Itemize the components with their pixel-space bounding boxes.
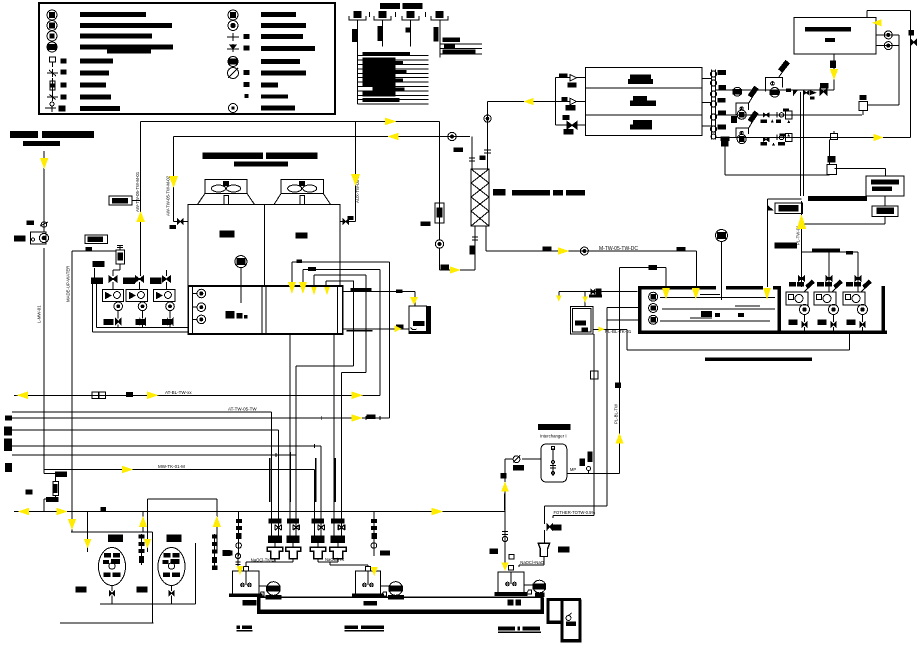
wire box top feed bbox=[867, 11, 911, 138]
wire recirculation drop B bbox=[553, 510, 595, 518]
chemical feeder assembly 4 bbox=[330, 334, 346, 562]
riser unit 1 bbox=[349, 12, 366, 21]
arrow right tank feed bbox=[558, 247, 570, 255]
thick label under tank bbox=[705, 358, 812, 361]
svg-text:AT-BL-TW-xx: AT-BL-TW-xx bbox=[165, 390, 192, 395]
riser text labels bbox=[37, 171, 801, 424]
arrow down buffer inlet 1 bbox=[288, 282, 296, 294]
wire group3 jog bbox=[166, 137, 173, 277]
arrow down branch x72 bbox=[68, 519, 76, 530]
riser tick marks bbox=[370, 12, 426, 17]
pump P-A3 loop with handle bbox=[721, 111, 758, 143]
arrow down interchanger feed lower bbox=[501, 563, 508, 572]
wire pump row2 bbox=[716, 114, 863, 116]
dosing tank TK-2 bbox=[352, 567, 389, 597]
flow valve left of interchanger bbox=[505, 456, 541, 470]
dosing tank TK-1 bbox=[230, 567, 267, 597]
legend symbol inline-filter row7 bbox=[50, 78, 66, 93]
svg-text:MW-TK-01-M: MW-TK-01-M bbox=[158, 464, 185, 469]
brine column between vessels bbox=[139, 534, 145, 565]
chiller area title bars bbox=[203, 153, 318, 167]
chilled water pump group 1 bbox=[92, 276, 124, 328]
arrow right header y510 b bbox=[432, 508, 444, 516]
tank internal label bbox=[701, 311, 744, 317]
air cooled chiller CH-1 body bbox=[188, 205, 264, 286]
wire header y446 bbox=[12, 445, 321, 447]
legend text bars right column bbox=[261, 12, 315, 111]
arrow left HRU feed bbox=[524, 98, 534, 105]
dosing pump DP-2 bbox=[381, 582, 403, 599]
wire bracket L3 bbox=[314, 275, 366, 373]
wire tank to measuring box lower bbox=[343, 325, 417, 332]
wire header y418 bbox=[12, 415, 390, 419]
tower pump set 2 bbox=[814, 275, 842, 332]
level transmitter above tank bbox=[716, 230, 728, 301]
legend symbol valve2 row8 bbox=[47, 93, 66, 101]
wire header y469 bbox=[44, 464, 315, 470]
wire interchanger outlet right bbox=[567, 452, 620, 474]
tank sight glasses bbox=[649, 292, 658, 324]
legend symbol drain-valve row9 bbox=[45, 102, 65, 112]
drawing title bar bbox=[10, 131, 94, 146]
header label C bbox=[508, 600, 521, 606]
label PLBL near tank left bbox=[605, 329, 632, 334]
svg-text:FOTHER-TOTW-0.5%: FOTHER-TOTW-0.5% bbox=[554, 510, 596, 515]
chemical feeder assembly 3 bbox=[310, 446, 326, 562]
auxiliary tank left of TW tank bbox=[570, 306, 592, 334]
wire riser to tank right chamber bbox=[801, 92, 804, 287]
wire header y430 bbox=[12, 429, 278, 431]
wire pump row3 bbox=[716, 137, 911, 139]
arrow right row3 bbox=[874, 134, 884, 141]
arrow down city water bbox=[40, 158, 49, 169]
left edge header labels bbox=[4, 416, 12, 472]
HX labels bbox=[493, 189, 585, 196]
check valve HRU row1 bbox=[560, 74, 577, 87]
wire main header y395 bbox=[14, 394, 380, 396]
svg-text:M-TW-05-TW-DC: M-TW-05-TW-DC bbox=[599, 246, 638, 252]
air cooled chiller CH-2 body bbox=[264, 205, 340, 286]
legend box frame bbox=[39, 3, 335, 114]
chemical feeder assembly 2 bbox=[286, 334, 301, 562]
pressure gauge PI bbox=[859, 95, 899, 115]
legend symbol post row5 bbox=[50, 57, 67, 67]
arrow down tank1 inlet bbox=[237, 566, 244, 575]
chiller CH-2 fan housing bbox=[274, 179, 331, 204]
interchanger label bbox=[538, 424, 571, 438]
svg-text:NaOCl-TK-D: NaOCl-TK-D bbox=[251, 558, 275, 563]
wire HX top riser bbox=[480, 102, 491, 170]
arrow down buffer inlet 3 bbox=[311, 287, 317, 295]
arrow right measuring box lower bbox=[395, 325, 402, 332]
arrow right tank drain small bbox=[599, 327, 605, 333]
pump P-A1 bbox=[733, 87, 742, 96]
softener vessel V-1 bbox=[99, 535, 126, 604]
svg-text:AW-TW-05-TW-M-01: AW-TW-05-TW-M-01 bbox=[135, 171, 140, 212]
wire pump suction frame bbox=[93, 262, 189, 332]
svg-text:NaOCl+NaO: NaOCl+NaO bbox=[520, 560, 544, 565]
legend symbol circle-square row1 bbox=[47, 10, 57, 20]
arrow left into expansion box bbox=[872, 19, 882, 26]
feeder vertical labels bbox=[269, 452, 336, 502]
strainer on city water bbox=[26, 472, 67, 501]
wire chiller CH-2 riser bbox=[355, 121, 357, 221]
wire pump row1 bbox=[716, 89, 835, 91]
dosing pump DP-1 bbox=[259, 582, 281, 599]
bottom equipment label A bbox=[236, 625, 252, 631]
chemical drain header thick bbox=[257, 597, 544, 614]
arrow up vessel riser x143 bbox=[139, 516, 147, 527]
header labels bbox=[243, 600, 378, 605]
gate valve HRU row3 bbox=[563, 116, 577, 135]
svg-text:MADE-UP-WATER: MADE-UP-WATER bbox=[66, 266, 71, 302]
wire bracket L2 bbox=[303, 270, 380, 396]
softener vessel V-2 bbox=[158, 535, 185, 604]
arrow down tank inlet 3 bbox=[763, 288, 771, 300]
arrow down vessel inlet 1 bbox=[84, 539, 92, 549]
svg-text:PL-BL-TK-01: PL-BL-TK-01 bbox=[605, 329, 632, 334]
tower pump set 3 bbox=[843, 275, 871, 332]
svg-text:MP: MP bbox=[570, 467, 576, 472]
misc component right of vessels bbox=[235, 552, 240, 569]
tank water level lines bbox=[660, 295, 775, 322]
arrow right header y469 bbox=[122, 466, 133, 474]
heat recovery unit stack HRU-1..3 bbox=[585, 67, 702, 135]
wire tank middle inlet bbox=[607, 308, 638, 320]
wire makeup column tank2 bbox=[371, 512, 390, 557]
label box small right bbox=[802, 196, 899, 224]
brine column right bbox=[212, 534, 230, 570]
drain valve right edge bbox=[909, 30, 917, 45]
tower water tank thick shell bbox=[638, 286, 887, 334]
legend symbol slashed-circle right row6 bbox=[228, 68, 250, 79]
bracket labels bbox=[296, 260, 402, 293]
wire header y412 bbox=[12, 407, 272, 413]
sump pit thick outline bbox=[546, 600, 581, 641]
plate heat exchanger HX-1 bbox=[471, 169, 489, 226]
air gap funnel bbox=[519, 530, 569, 567]
svg-text:L-MW-01: L-MW-01 bbox=[37, 305, 42, 323]
water meter station bbox=[15, 221, 49, 244]
arrow down aux line end bbox=[556, 296, 562, 302]
chiller CH-1 fan housing bbox=[198, 179, 255, 204]
legend symbol safety-valve right row4 bbox=[227, 44, 249, 52]
wire box bottom drop bbox=[831, 54, 836, 90]
legend symbol circle-dot right row2 bbox=[228, 21, 238, 31]
wire branch x72 down bbox=[60, 532, 153, 623]
buffer tank mid left bbox=[188, 286, 343, 334]
legend symbol valve right row3 bbox=[227, 33, 249, 41]
pump P-A2 loop with handle bbox=[731, 86, 758, 122]
dosing filter component bbox=[96, 245, 125, 276]
buffer tank sight glasses bbox=[193, 289, 206, 324]
arrow up interchanger feed bbox=[501, 482, 509, 492]
arrow up vessel riser x217 bbox=[213, 516, 221, 527]
legend symbol filled-circle row4 bbox=[47, 42, 57, 52]
arrow up pump riser bbox=[136, 211, 145, 222]
junction row3 bbox=[831, 131, 838, 140]
arrow down transfer box bbox=[410, 297, 418, 305]
arrow right header y418 bbox=[352, 414, 364, 422]
legend symbol square right row7 bbox=[244, 83, 249, 87]
riser stem 2 bbox=[378, 20, 382, 46]
label box left B bbox=[85, 235, 108, 251]
arrow down vessel inlet 2 bbox=[144, 539, 152, 549]
riser unit labels top bbox=[380, 3, 423, 9]
bottom equipment label D bbox=[498, 626, 541, 633]
arrow right condenser supply bbox=[385, 118, 397, 126]
arrow down tank2 inlet bbox=[371, 567, 378, 576]
PT instrument pair on header bbox=[92, 390, 193, 399]
legend symbol circle-tinydot right row9 bbox=[229, 104, 238, 113]
wire condenser supply header bbox=[141, 121, 440, 276]
chilled water pump group 2 bbox=[124, 276, 148, 328]
wire row3 branch down bbox=[768, 199, 802, 287]
arrow down buffer inlet 2 bbox=[299, 282, 307, 294]
wire makeup water line bbox=[72, 251, 116, 532]
svg-text:AW-TW-05-TW-M-02: AW-TW-05-TW-M-02 bbox=[166, 175, 171, 216]
expansion tank box top right bbox=[794, 18, 876, 55]
legend symbol circle-dot row2 bbox=[47, 21, 57, 31]
riser unit 3 bbox=[402, 12, 419, 21]
wire bottom distribution y510 bbox=[14, 507, 505, 511]
svg-text:Interchanger I: Interchanger I bbox=[540, 433, 567, 438]
arrow left condenser return bbox=[388, 133, 399, 141]
valve marks row1 bbox=[786, 89, 815, 100]
interchanger vessel bbox=[541, 444, 567, 482]
valve chiller CH-1 inlet bbox=[170, 219, 188, 229]
wire recirculation drop A bbox=[545, 506, 607, 524]
equipment schedule table bbox=[357, 52, 428, 104]
wire tank inlet branch bbox=[620, 266, 667, 287]
legend symbol filled-circle right row5 bbox=[228, 57, 238, 67]
wire transfer to small box bbox=[343, 292, 415, 307]
wire return riser to interchanger bbox=[619, 268, 621, 474]
mixing valve with X bbox=[547, 524, 561, 530]
valve marks row3 bbox=[761, 134, 792, 146]
wire city water riser bbox=[44, 151, 56, 512]
riser stem 1 bbox=[352, 20, 357, 56]
sump pump glyph bbox=[566, 613, 576, 626]
legend symbol dot right row8 bbox=[245, 95, 248, 98]
wire header y455 bbox=[12, 366, 354, 455]
level gauge chiller area bbox=[235, 256, 247, 304]
arrow right header y395 mid bbox=[147, 392, 159, 400]
arrow up interchanger return bbox=[615, 433, 623, 444]
legend symbol valve row6 bbox=[47, 69, 66, 77]
wire HX cold side bottom bbox=[470, 226, 478, 270]
riser unit 4 bbox=[431, 12, 448, 21]
wire tank drain loop bbox=[627, 329, 850, 350]
arrow right MW to HX bbox=[450, 266, 461, 273]
tower pump set 1 bbox=[786, 276, 814, 332]
dosing tank TK-3 bbox=[495, 565, 532, 595]
wire aux tank feed bbox=[559, 289, 638, 306]
check valve HRU row2 bbox=[562, 98, 577, 111]
arrow down box drop bbox=[830, 69, 838, 80]
instrument manifold column bbox=[711, 70, 727, 140]
riser stem 3 bbox=[406, 20, 411, 46]
wire vessel bottom header bbox=[76, 543, 195, 604]
riser stem 4 bbox=[434, 20, 440, 58]
wire vessel risers bbox=[88, 499, 217, 552]
wire HRU right stubs bbox=[702, 79, 711, 127]
balance valve row1 left bbox=[820, 84, 828, 95]
svg-text:AT-TW-05-TW: AT-TW-05-TW bbox=[228, 407, 257, 412]
chemical pot feeder box bbox=[866, 176, 904, 196]
arrow right header y395 end bbox=[352, 392, 364, 400]
arrow left header y395 bbox=[17, 392, 29, 400]
valve chiller CH-2 outlet bbox=[340, 217, 356, 225]
buffer tank label bbox=[226, 311, 248, 319]
wire interchanger feed riser bbox=[490, 459, 514, 568]
arrow down aux riser bbox=[351, 174, 360, 186]
riser unit 2 bbox=[374, 12, 391, 21]
arrow down tank inlet 1 bbox=[662, 288, 670, 300]
bottom equipment label B bbox=[345, 625, 384, 631]
wire makeup column tank1 bbox=[225, 512, 242, 557]
wire HX hot side bottom to tank bbox=[486, 226, 696, 287]
legend symbol circle-smallsquare row3 bbox=[47, 31, 57, 41]
arrow down tank inlet 2 bbox=[692, 288, 700, 300]
arrow down chiller feed bbox=[169, 176, 178, 188]
wire aux risers down bbox=[591, 308, 621, 516]
dosing pump DP-3 bbox=[527, 580, 546, 596]
mini schedule table right bbox=[440, 38, 482, 54]
chilled water pump group 3 bbox=[151, 276, 175, 328]
arrow up tank riser bbox=[797, 214, 806, 229]
wire condenser return to HX bbox=[448, 132, 475, 169]
wire to chemical pot bbox=[722, 140, 886, 176]
wire feeders to tank1 bbox=[246, 558, 293, 567]
svg-text:NaOCl-TK: NaOCl-TK bbox=[325, 557, 345, 562]
chemical feeder assembly 1 bbox=[267, 412, 283, 562]
legend symbol circle-square right row1 bbox=[228, 10, 238, 20]
thick label band bbox=[808, 196, 867, 201]
wire bracket L4 bbox=[326, 281, 354, 366]
arrow left header y510 bbox=[18, 508, 30, 516]
legend text bars left column bbox=[80, 12, 173, 111]
temperature sensors TI pair bbox=[876, 31, 899, 105]
pump riser header bbox=[802, 248, 859, 275]
wire feeders to tank2 bbox=[318, 557, 368, 567]
label box mid right bbox=[768, 203, 803, 214]
wire aux tank drain bbox=[593, 328, 627, 330]
arrow right header y510 a bbox=[57, 508, 68, 516]
wire tower water supply drop bbox=[421, 121, 475, 270]
label box left A bbox=[109, 196, 141, 205]
chemical measuring box right of tank bbox=[409, 306, 431, 334]
arrow down buffer inlet 4 bbox=[324, 287, 330, 295]
wire bracket L1 bbox=[292, 262, 390, 418]
wire HRU left header bbox=[488, 78, 586, 126]
fitting below junction bbox=[827, 140, 837, 176]
junction ticks bbox=[276, 393, 380, 457]
valve marks row2 bbox=[761, 108, 792, 123]
svg-text:PL-BL-TW: PL-BL-TW bbox=[613, 403, 618, 424]
arrow down aux tank stem bbox=[582, 297, 588, 303]
pump loop P-B1 with handle bbox=[765, 61, 789, 98]
wire condenser return header bbox=[174, 137, 470, 220]
